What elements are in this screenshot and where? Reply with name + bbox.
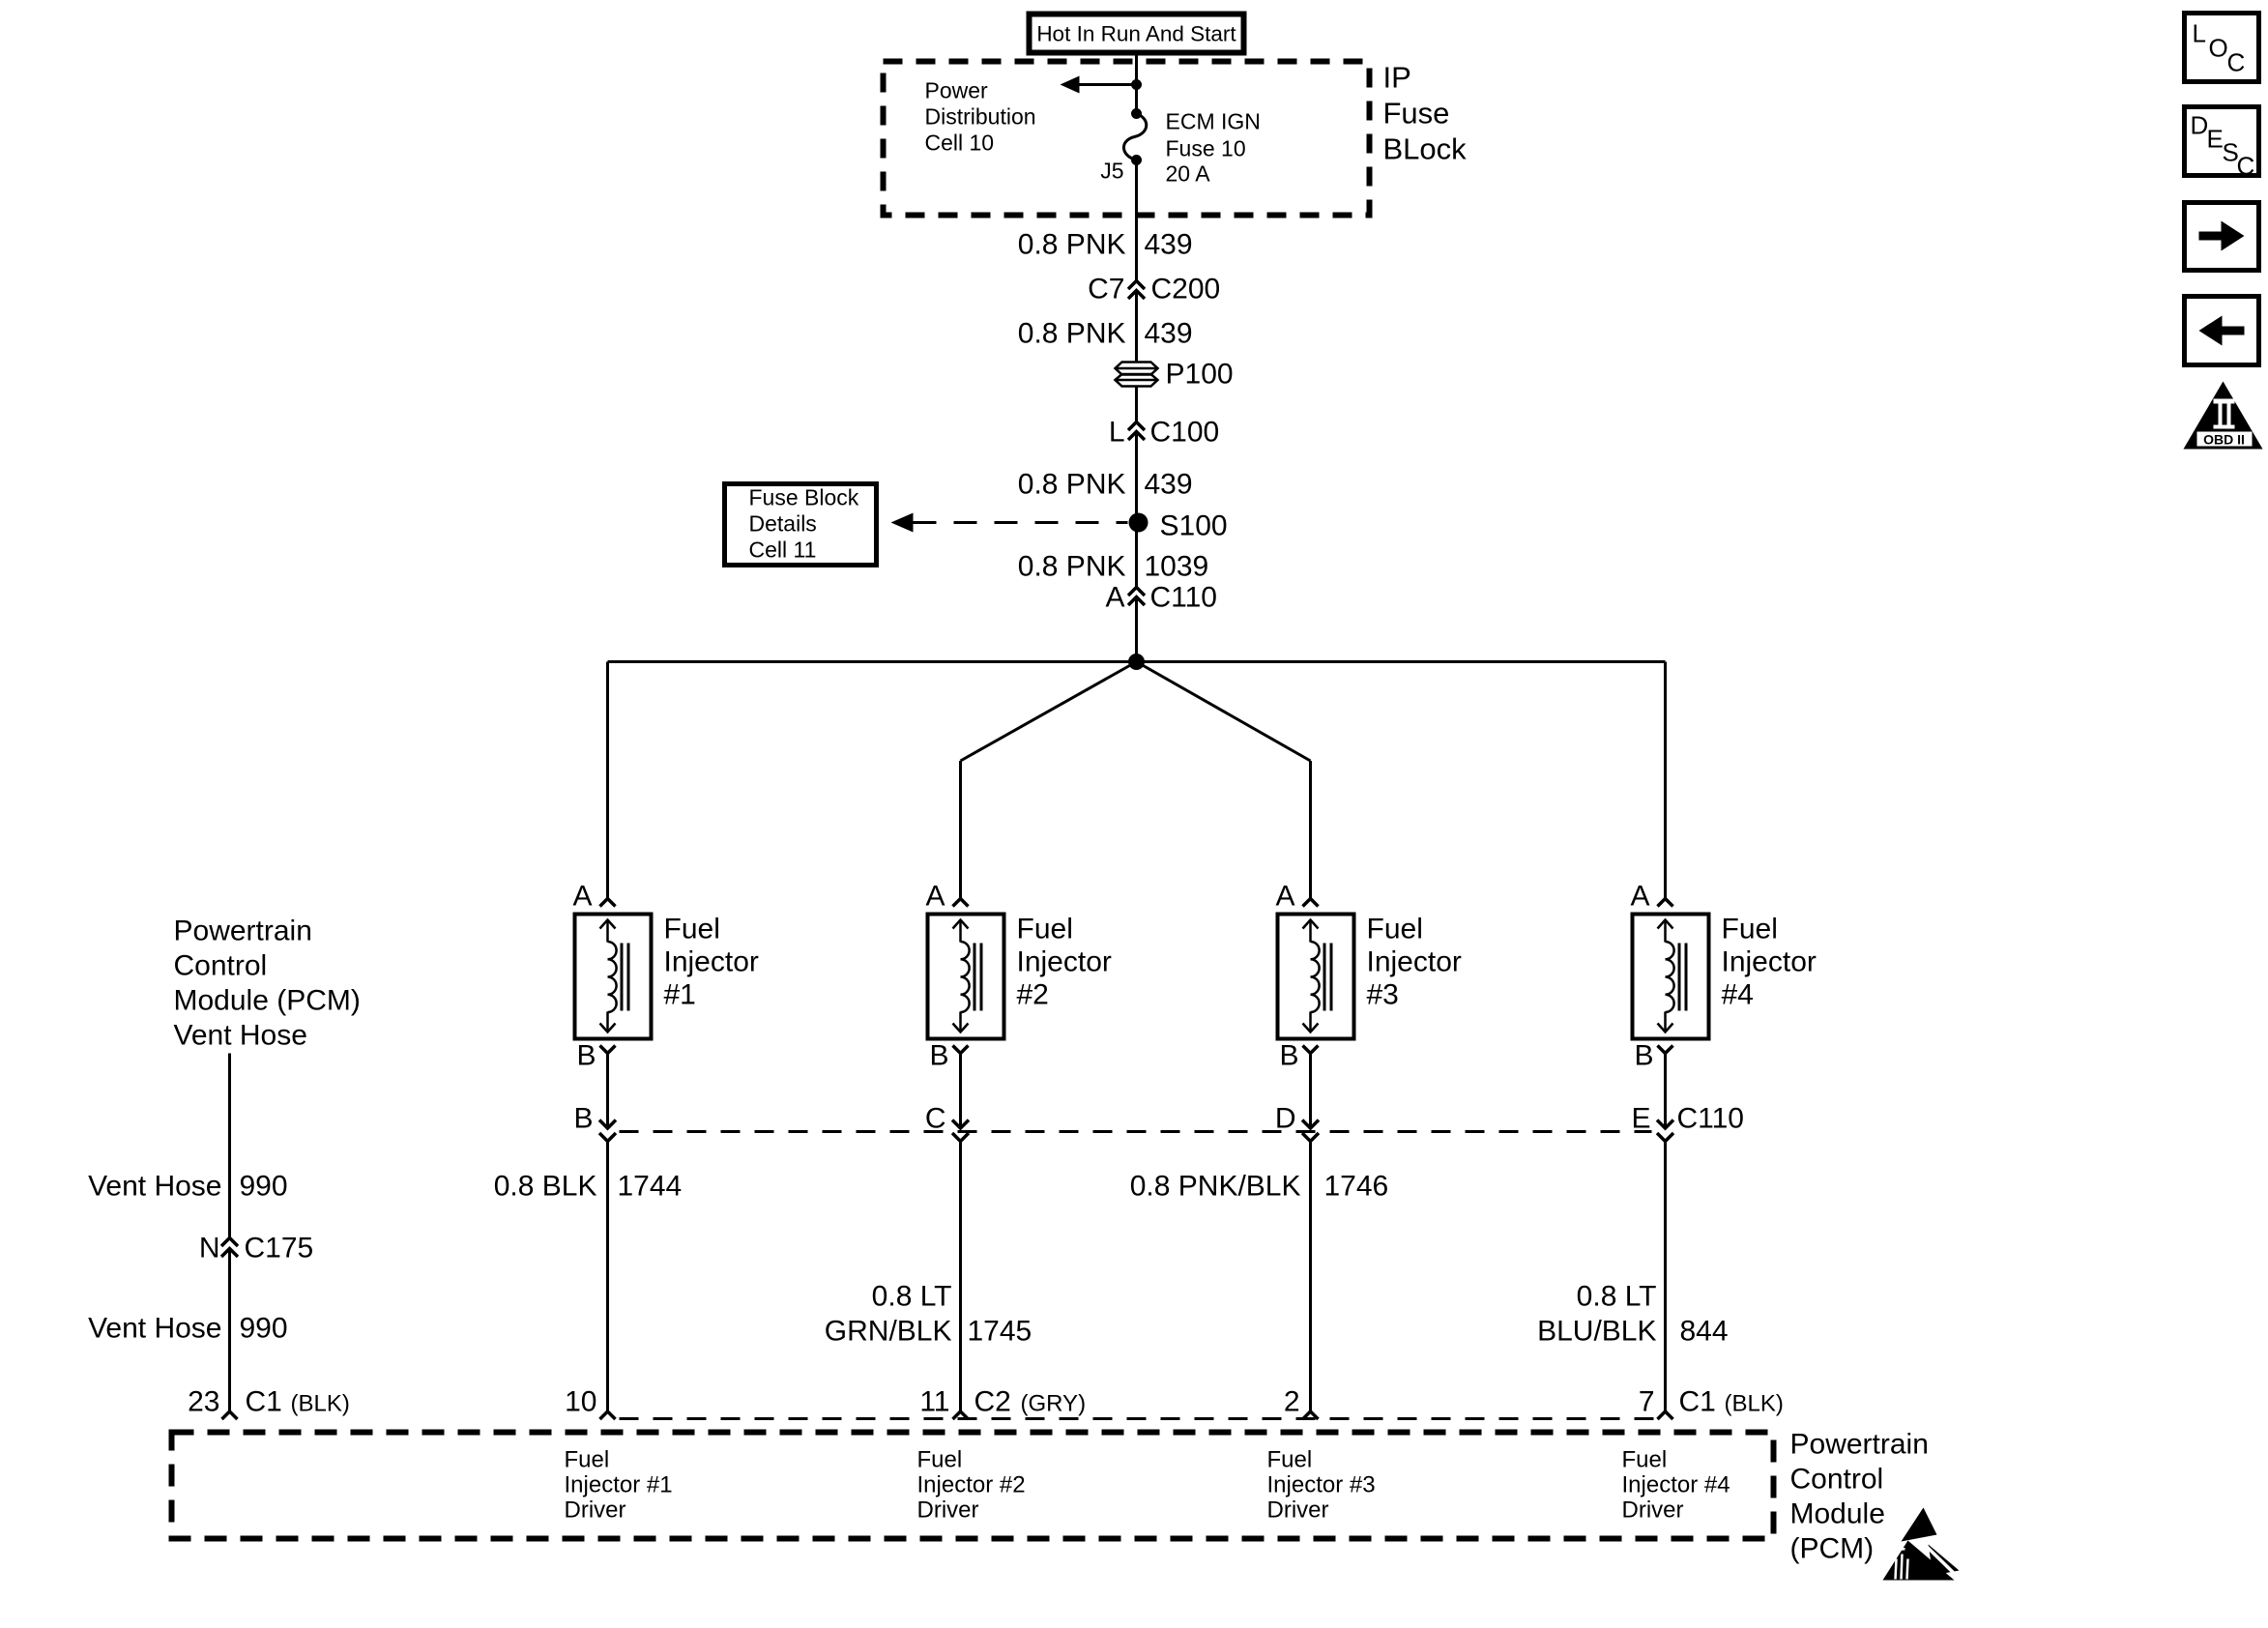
- svg-text:C: C: [2227, 48, 2246, 77]
- svg-text:Driver: Driver: [917, 1497, 979, 1524]
- svg-text:10: 10: [565, 1386, 596, 1418]
- svg-text:Fuel: Fuel: [664, 914, 720, 945]
- svg-text:Vent Hose: Vent Hose: [88, 1171, 221, 1203]
- svg-text:7: 7: [1639, 1386, 1655, 1418]
- svg-text:C: C: [925, 1103, 946, 1135]
- svg-text:A: A: [572, 881, 592, 913]
- svg-text:Injector: Injector: [1722, 946, 1817, 978]
- svg-text:1745: 1745: [968, 1316, 1032, 1348]
- svg-text:Driver: Driver: [565, 1497, 626, 1524]
- svg-text:(BLK): (BLK): [1725, 1391, 1784, 1417]
- svg-text:C2: C2: [974, 1386, 1011, 1418]
- svg-text:0.8 PNK/BLK: 0.8 PNK/BLK: [1130, 1171, 1301, 1203]
- svg-text:E: E: [1631, 1103, 1650, 1135]
- svg-text:23: 23: [188, 1386, 219, 1418]
- svg-text:Fuel: Fuel: [917, 1447, 963, 1473]
- svg-text:#1: #1: [664, 979, 696, 1011]
- svg-text:#3: #3: [1367, 979, 1399, 1011]
- svg-text:OBD II: OBD II: [2203, 432, 2245, 448]
- svg-text:2: 2: [1284, 1386, 1300, 1418]
- svg-text:Fuel: Fuel: [1622, 1447, 1668, 1473]
- svg-text:Vent Hose: Vent Hose: [88, 1313, 221, 1345]
- svg-text:#4: #4: [1722, 979, 1754, 1011]
- svg-text:0.8 PNK: 0.8 PNK: [1018, 551, 1126, 583]
- svg-text:Fuse: Fuse: [1383, 97, 1450, 131]
- svg-text:Details: Details: [749, 511, 817, 537]
- svg-text:(GRY): (GRY): [1021, 1391, 1087, 1417]
- svg-text:C175: C175: [245, 1233, 314, 1265]
- svg-text:Driver: Driver: [1267, 1497, 1329, 1524]
- svg-text:C110: C110: [1150, 582, 1218, 614]
- svg-text:S100: S100: [1160, 510, 1228, 542]
- svg-text:Distribution: Distribution: [925, 104, 1036, 130]
- svg-text:Cell 11: Cell 11: [749, 538, 817, 563]
- svg-text:Injector #2: Injector #2: [917, 1472, 1026, 1498]
- svg-text:L: L: [2193, 19, 2206, 48]
- svg-text:Injector: Injector: [664, 946, 759, 978]
- svg-text:(PCM): (PCM): [1790, 1533, 1875, 1565]
- svg-text:1039: 1039: [1145, 551, 1209, 583]
- svg-text:1744: 1744: [618, 1171, 683, 1203]
- svg-text:C1: C1: [246, 1386, 282, 1418]
- svg-text:C: C: [2237, 152, 2255, 181]
- svg-text:0.8 LT: 0.8 LT: [1577, 1281, 1657, 1313]
- svg-text:A: A: [1275, 881, 1294, 913]
- svg-text:Control: Control: [1790, 1464, 1884, 1496]
- svg-text:C100: C100: [1150, 417, 1220, 449]
- svg-text:Control: Control: [174, 950, 268, 982]
- svg-text:Fuel: Fuel: [1367, 914, 1423, 945]
- svg-text:E: E: [2207, 125, 2224, 154]
- svg-text:IP: IP: [1383, 61, 1411, 95]
- svg-text:N: N: [199, 1233, 220, 1265]
- svg-text:O: O: [2209, 34, 2228, 63]
- svg-text:Powertrain: Powertrain: [174, 916, 312, 947]
- svg-text:B: B: [1279, 1040, 1298, 1072]
- svg-text:C200: C200: [1151, 274, 1221, 305]
- svg-text:L: L: [1109, 417, 1125, 449]
- svg-text:(BLK): (BLK): [291, 1391, 350, 1417]
- svg-text:C7: C7: [1088, 274, 1124, 305]
- svg-text:BLU/BLK: BLU/BLK: [1537, 1316, 1656, 1348]
- svg-text:Injector #1: Injector #1: [565, 1472, 673, 1498]
- svg-text:A: A: [925, 881, 945, 913]
- svg-text:B: B: [929, 1040, 948, 1072]
- svg-text:Fuel: Fuel: [1267, 1447, 1313, 1473]
- svg-text:0.8 PNK: 0.8 PNK: [1018, 229, 1126, 261]
- svg-text:Fuse 10: Fuse 10: [1166, 136, 1246, 161]
- svg-text:Fuel: Fuel: [1722, 914, 1778, 945]
- svg-text:Injector #3: Injector #3: [1267, 1472, 1376, 1498]
- svg-text:439: 439: [1145, 229, 1193, 261]
- svg-text:Injector: Injector: [1367, 946, 1462, 978]
- svg-text:P100: P100: [1166, 359, 1234, 391]
- svg-text:ECM IGN: ECM IGN: [1166, 109, 1261, 134]
- svg-text:Module: Module: [1790, 1498, 1885, 1530]
- svg-text:D: D: [1275, 1103, 1296, 1135]
- svg-text:B: B: [573, 1103, 593, 1135]
- svg-text:Powertrain: Powertrain: [1790, 1429, 1929, 1461]
- svg-text:#2: #2: [1017, 979, 1049, 1011]
- svg-text:J5: J5: [1100, 159, 1123, 184]
- svg-text:Module (PCM): Module (PCM): [174, 985, 361, 1017]
- svg-text:GRN/BLK: GRN/BLK: [825, 1316, 952, 1348]
- svg-text:0.8 PNK: 0.8 PNK: [1018, 469, 1126, 501]
- svg-text:0.8 LT: 0.8 LT: [872, 1281, 952, 1313]
- svg-text:C110: C110: [1677, 1103, 1745, 1135]
- svg-text:Power: Power: [925, 78, 989, 103]
- svg-text:990: 990: [240, 1171, 288, 1203]
- svg-text:439: 439: [1145, 318, 1193, 350]
- svg-text:B: B: [576, 1040, 596, 1072]
- svg-text:Hot In Run And Start: Hot In Run And Start: [1036, 22, 1236, 46]
- svg-text:990: 990: [240, 1313, 288, 1345]
- svg-text:Injector #4: Injector #4: [1622, 1472, 1730, 1498]
- svg-text:0.8 BLK: 0.8 BLK: [494, 1171, 597, 1203]
- svg-text:439: 439: [1145, 469, 1193, 501]
- svg-text:Vent Hose: Vent Hose: [174, 1020, 307, 1052]
- svg-text:B: B: [1634, 1040, 1653, 1072]
- svg-text:Driver: Driver: [1622, 1497, 1684, 1524]
- svg-text:A: A: [1630, 881, 1649, 913]
- svg-text:Fuel: Fuel: [565, 1447, 610, 1473]
- svg-text:20 A: 20 A: [1166, 161, 1211, 187]
- svg-text:Cell 10: Cell 10: [925, 131, 995, 156]
- svg-text:C1: C1: [1679, 1386, 1716, 1418]
- svg-text:D: D: [2191, 111, 2209, 140]
- svg-text:844: 844: [1680, 1316, 1729, 1348]
- svg-text:Injector: Injector: [1017, 946, 1112, 978]
- svg-text:BLock: BLock: [1383, 132, 1468, 166]
- svg-text:Fuel: Fuel: [1017, 914, 1073, 945]
- svg-text:11: 11: [919, 1386, 949, 1418]
- svg-text:Fuse Block: Fuse Block: [749, 485, 859, 510]
- svg-text:0.8 PNK: 0.8 PNK: [1018, 318, 1126, 350]
- svg-text:1746: 1746: [1324, 1171, 1389, 1203]
- svg-text:A: A: [1105, 582, 1124, 614]
